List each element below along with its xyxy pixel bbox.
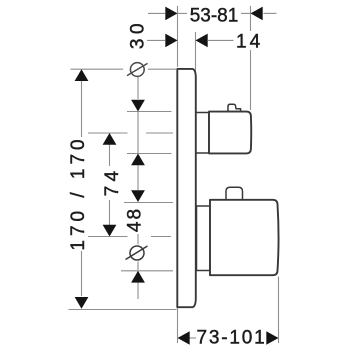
extension line x=278.5 (73-101 right) [278, 277, 280, 344]
extension line x=250.5 (53-81 right, upper segment) [250, 6, 252, 31]
extension line y=236.5 (lower handle axis) [88, 236, 128, 238]
dimension 53-81 line [148, 7, 277, 21]
lower handle (thermostat) [210, 200, 279, 275]
diameter symbol lower [126, 246, 148, 260]
upper handle (shut-off) [209, 112, 251, 154]
extension line plate front face (x=177.5 top) [177, 6, 179, 67]
dimension 14 line [147, 34, 234, 48]
extension line y=270.8 (lower handle bottom) [121, 270, 173, 272]
extension line y=111.5 (upper handle top) [127, 111, 172, 113]
extension line x=250.5 (53-81 right, lower segment) [250, 50, 252, 110]
extension line y=202.5 (lower handle top) [124, 202, 173, 204]
extension line plate front face (x=177.5 bottom) [177, 308, 179, 343]
lower handle sleeve [197, 206, 211, 271]
extension line y=133 (upper handle axis) [88, 132, 128, 134]
dimension 170/170 vertical line [75, 69, 89, 309]
escutcheon plate (side view) [177, 69, 196, 307]
extension line x=195.5 (14 right) [195, 32, 197, 78]
dimension 73-101 line [178, 331, 279, 345]
svg-text:14: 14 [236, 32, 263, 53]
lower handle indicator tab [226, 187, 243, 200]
svg-text:48: 48 [125, 207, 146, 232]
dimension line diameter 30 [131, 77, 145, 190]
svg-text:53-81: 53-81 [190, 6, 239, 27]
extension line y=69 (plate top, 170/170 top) [71, 68, 124, 70]
upper handle indicator tab [228, 104, 241, 111]
svg-text:73-101: 73-101 [197, 328, 267, 349]
dimension line diameter 48 [131, 190, 145, 299]
svg-text:74: 74 [102, 167, 123, 197]
dimension 74 vertical line [103, 133, 117, 237]
upper handle sleeve [196, 113, 209, 154]
svg-text:170 / 170: 170 / 170 [68, 135, 89, 250]
extension line y=153.5 (upper handle bottom) [127, 153, 172, 155]
extension line y=309.5 (plate bottom, 170/170 bottom) [69, 309, 177, 311]
diameter symbol upper [127, 63, 148, 77]
svg-text:30: 30 [128, 19, 149, 49]
